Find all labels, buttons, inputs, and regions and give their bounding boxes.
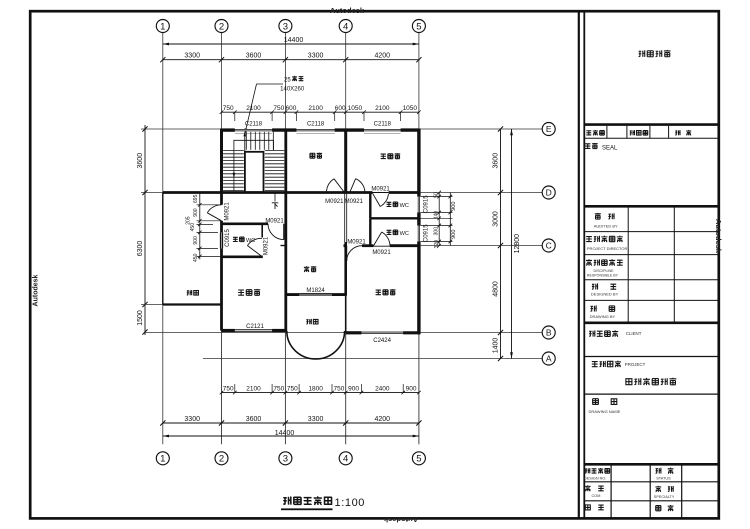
wall grid3 full bbox=[284, 129, 287, 332]
svg-text:1400: 1400 bbox=[492, 338, 499, 354]
svg-text:B: B bbox=[546, 328, 552, 338]
svg-text:750: 750 bbox=[223, 105, 234, 112]
svg-text:1800: 1800 bbox=[308, 385, 323, 392]
window C2118 no.1 bbox=[235, 130, 272, 134]
svg-text:3300: 3300 bbox=[184, 53, 200, 60]
room label 主卧室 right bbox=[376, 289, 396, 295]
svg-text:4: 4 bbox=[343, 21, 348, 32]
svg-text:600: 600 bbox=[285, 105, 296, 112]
wall B right with C2424 bbox=[346, 332, 421, 335]
svg-text:A: A bbox=[546, 354, 552, 364]
svg-text:Autodesk: Autodesk bbox=[714, 219, 723, 254]
工程负责人 PROJECT DIRECTOR bbox=[586, 236, 627, 251]
svg-text:RESPONSIBLE BY: RESPONSIBLE BY bbox=[587, 274, 619, 278]
svg-text:M0921: M0921 bbox=[371, 186, 390, 192]
svg-text:750: 750 bbox=[223, 385, 234, 392]
window C0915 right upper bbox=[418, 197, 420, 213]
svg-text:CLIENT: CLIENT bbox=[626, 331, 642, 336]
wall C (bay4-5) with door gaps bbox=[344, 244, 419, 247]
svg-text:DRAWING BY: DRAWING BY bbox=[590, 314, 616, 319]
wall grid4 upper bbox=[344, 129, 347, 194]
grid line 3 vertical bbox=[284, 33, 286, 445]
door pair arcs above wall D (bedroom doors) bbox=[326, 179, 365, 192]
right total dim 12800 bbox=[510, 129, 521, 359]
svg-text:900: 900 bbox=[406, 385, 417, 392]
svg-text:3300: 3300 bbox=[308, 53, 324, 60]
svg-text:2100: 2100 bbox=[375, 105, 390, 112]
top bay dims 3300 3600 3300 4200 bbox=[160, 53, 421, 63]
svg-text:2: 2 bbox=[219, 454, 224, 465]
room label 阳台 left bbox=[187, 290, 199, 295]
grid line B horizontal bbox=[145, 332, 542, 334]
grid line 2 vertical bbox=[221, 33, 223, 445]
工程名称 PROJECT / 四川南江别墅 bbox=[584, 361, 719, 394]
svg-text:1: 1 bbox=[160, 21, 165, 32]
right small dim lines bbox=[421, 191, 457, 249]
door M0921 master bedroom right (swing down-right) bbox=[347, 246, 362, 261]
window C2118 no.3 bbox=[364, 130, 401, 134]
wall grid2 lower with door + C0915 window bbox=[220, 193, 223, 331]
bottom grid circles 1-5 bbox=[156, 452, 425, 465]
svg-text:750: 750 bbox=[333, 385, 344, 392]
door M0921 to left balcony (swing left) bbox=[207, 205, 221, 221]
svg-text:2100: 2100 bbox=[246, 105, 261, 112]
图名 DRAWING NAME bbox=[589, 399, 621, 414]
WC-left bottom wall bbox=[222, 255, 263, 258]
drawing-area / title-block divider bbox=[578, 10, 580, 519]
grid line E horizontal bbox=[141, 128, 542, 130]
svg-text:D: D bbox=[546, 188, 552, 198]
svg-text:M0921: M0921 bbox=[224, 202, 230, 221]
window C0915 right lower bbox=[418, 226, 420, 242]
svg-text:2100: 2100 bbox=[246, 385, 261, 392]
window C0915 left bbox=[221, 232, 223, 248]
svg-text:2: 2 bbox=[219, 21, 224, 32]
title block: seal area 盖章 SEAL bbox=[585, 143, 618, 152]
施工单位 CLIENT section bbox=[584, 330, 719, 356]
left dim line 3600/6300/1500 bbox=[137, 125, 163, 335]
svg-text:C0915: C0915 bbox=[424, 195, 430, 213]
svg-text:3600: 3600 bbox=[246, 416, 262, 423]
door M0921 upper WC (swing down) bbox=[371, 193, 389, 207]
C2118 window labels top bbox=[245, 121, 392, 127]
svg-text:140X260: 140X260 bbox=[280, 87, 305, 93]
svg-text:Autodesk: Autodesk bbox=[330, 6, 365, 15]
room label 主卧WC left bbox=[233, 237, 255, 244]
svg-text:450: 450 bbox=[190, 223, 196, 232]
exterior wall E (top) with C2118 windows bbox=[222, 129, 419, 131]
exterior wall grid5 (right) with two C0915 windows bbox=[418, 129, 420, 335]
svg-text:DESIGNED BY: DESIGNED BY bbox=[591, 292, 619, 297]
svg-text:M1824: M1824 bbox=[306, 288, 325, 294]
svg-text:5: 5 bbox=[416, 21, 421, 32]
svg-text:3: 3 bbox=[283, 454, 288, 465]
svg-text:750: 750 bbox=[273, 105, 284, 112]
svg-text:Autodesk: Autodesk bbox=[383, 515, 418, 524]
staircase right flight treads bbox=[265, 151, 285, 191]
svg-text:750: 750 bbox=[273, 385, 284, 392]
svg-text:2100: 2100 bbox=[308, 105, 323, 112]
svg-text:50: 50 bbox=[433, 192, 439, 198]
stair down arrow bbox=[233, 173, 236, 179]
stair down tick + 下 label bbox=[272, 194, 278, 210]
svg-text:C2118: C2118 bbox=[307, 121, 325, 127]
window C2118 no.2 bbox=[296, 130, 334, 134]
room label 主卧WC lower bbox=[387, 230, 409, 237]
svg-text:Autodesk: Autodesk bbox=[33, 274, 40, 306]
制图 DRAWING BY bbox=[590, 305, 616, 319]
staircase top flight treads bbox=[246, 132, 273, 150]
svg-text:3300: 3300 bbox=[308, 416, 324, 423]
svg-text:SPECIALTY: SPECIALTY bbox=[654, 495, 675, 499]
bottom table bbox=[584, 464, 719, 519]
door M0921 into WC lobby (hinge at grid3) bbox=[268, 224, 284, 240]
svg-text:DRAWING NAME: DRAWING NAME bbox=[589, 409, 621, 414]
grid line 1 vertical bbox=[162, 33, 164, 445]
svg-text:14400: 14400 bbox=[284, 37, 304, 44]
svg-text:M0921: M0921 bbox=[372, 250, 391, 256]
svg-text:DISCIPLINE: DISCIPLINE bbox=[594, 269, 615, 273]
svg-text:M0921: M0921 bbox=[325, 199, 344, 205]
svg-text:DESIGN NO.: DESIGN NO. bbox=[584, 476, 606, 480]
svg-text:COM: COM bbox=[592, 494, 601, 498]
svg-text:14400: 14400 bbox=[275, 430, 295, 437]
door M0921 lower WC (swing up-right) bbox=[373, 232, 390, 246]
svg-text:3000: 3000 bbox=[492, 211, 499, 227]
top total dim 14400 bbox=[163, 37, 419, 45]
svg-text:M0921: M0921 bbox=[345, 199, 364, 205]
设计编号 DESIGN NO. / 阶段 STATUS bbox=[584, 468, 673, 481]
WC-left right wall bbox=[261, 224, 263, 238]
room label 主卧WC upper bbox=[387, 202, 409, 209]
interior wall D bbox=[163, 191, 419, 194]
top grid circles 1-5 bbox=[156, 20, 425, 33]
svg-text:6300: 6300 bbox=[137, 241, 144, 257]
日期 / 图号 bbox=[585, 505, 673, 511]
svg-text:WC: WC bbox=[400, 203, 409, 209]
svg-text:900: 900 bbox=[451, 202, 457, 211]
svg-text:C0915: C0915 bbox=[424, 224, 430, 242]
left bedroom bottom wall with C2121 bbox=[222, 329, 288, 332]
title block: issue row 正式图/条件图/版次 bbox=[584, 126, 719, 138]
svg-text:12800: 12800 bbox=[514, 234, 521, 254]
svg-text:2400: 2400 bbox=[375, 385, 390, 392]
right outer dim line 3600/3000/4800/1400 bbox=[492, 126, 503, 361]
svg-text:STATUS: STATUS bbox=[656, 476, 671, 480]
WC divider wall bbox=[370, 217, 419, 219]
svg-text:1050: 1050 bbox=[348, 105, 363, 112]
svg-text:600: 600 bbox=[335, 105, 346, 112]
张数 COM / 专业 SPECIALTY bbox=[585, 485, 675, 499]
svg-text:900: 900 bbox=[348, 385, 359, 392]
title block: project title box 轻钢别墅 bbox=[584, 50, 719, 125]
svg-text:M0921: M0921 bbox=[265, 218, 284, 224]
svg-text:C2118: C2118 bbox=[374, 121, 392, 127]
svg-text:M0921: M0921 bbox=[347, 240, 366, 246]
room label 主卧室 (bay4-5 up) bbox=[381, 153, 401, 159]
svg-text:4200: 4200 bbox=[375, 53, 391, 60]
svg-text:WC: WC bbox=[400, 231, 409, 237]
svg-text:1: 1 bbox=[160, 454, 165, 465]
room label 主卧室 left bbox=[238, 289, 260, 295]
svg-text:3600: 3600 bbox=[492, 153, 499, 169]
lower WC left wall bbox=[369, 218, 371, 245]
wall C stub at grid3 bbox=[281, 245, 288, 247]
svg-text:25: 25 bbox=[284, 78, 291, 84]
svg-text:695: 695 bbox=[193, 194, 199, 203]
专业负责人 DISCIPLINE RESPONSIBLE BY bbox=[586, 259, 623, 277]
svg-text:140: 140 bbox=[433, 211, 439, 220]
stair note 25梯步 140X260 with leader bbox=[245, 76, 305, 134]
WC-left top wall bbox=[222, 223, 269, 226]
wall grid2 upper (stair left) bbox=[220, 129, 223, 194]
svg-text:C2424: C2424 bbox=[373, 338, 391, 344]
left balcony bottom wall bbox=[163, 303, 222, 305]
left small dim line bbox=[186, 193, 221, 262]
center balcony arc bbox=[287, 331, 345, 359]
grid line C horizontal bbox=[419, 245, 542, 247]
title block: personnel table bbox=[584, 206, 719, 322]
svg-text:3: 3 bbox=[283, 21, 288, 32]
room label 书房 bbox=[304, 266, 316, 272]
room label 卧室 (bay3-4 up) bbox=[310, 153, 322, 159]
svg-text:3300: 3300 bbox=[184, 416, 200, 423]
svg-text:900: 900 bbox=[193, 236, 199, 245]
svg-text:3600: 3600 bbox=[246, 53, 262, 60]
审核 AUDITED BY bbox=[594, 213, 618, 229]
door M0921 WC-left (arc up-left) bbox=[247, 238, 262, 256]
wall grid4 double thin mid bbox=[345, 194, 347, 242]
svg-text:900: 900 bbox=[193, 208, 199, 217]
bottom window dim row bbox=[220, 384, 421, 394]
grid line A horizontal bbox=[203, 358, 542, 360]
balcony right wall grid4 bbox=[345, 296, 347, 332]
svg-text:E: E bbox=[546, 124, 552, 134]
title block left border bbox=[583, 10, 585, 519]
svg-text:C2121: C2121 bbox=[246, 324, 264, 330]
svg-text:4800: 4800 bbox=[492, 281, 499, 297]
balcony left wall grid1 bbox=[162, 193, 164, 305]
room label 阳台 center bbox=[306, 319, 318, 324]
svg-text:3600: 3600 bbox=[137, 153, 144, 169]
staircase left flight treads bbox=[223, 151, 244, 191]
svg-text:1050: 1050 bbox=[403, 105, 418, 112]
svg-text:C0915: C0915 bbox=[225, 229, 231, 247]
bottom bay dims bbox=[160, 416, 421, 426]
svg-text:4200: 4200 bbox=[375, 416, 391, 423]
staircase handrail bbox=[234, 140, 274, 191]
bottom total dim 14400 bbox=[163, 430, 419, 437]
top window dim row bbox=[220, 105, 421, 121]
svg-text:750: 750 bbox=[287, 385, 298, 392]
stair up arrow bbox=[244, 131, 247, 179]
svg-text:C: C bbox=[546, 241, 552, 251]
svg-text:900: 900 bbox=[451, 230, 457, 239]
设计 DESIGNED BY bbox=[591, 283, 619, 296]
svg-text:300: 300 bbox=[433, 227, 439, 236]
svg-text:1:100: 1:100 bbox=[335, 497, 366, 509]
svg-text:4: 4 bbox=[343, 454, 348, 465]
svg-text:320: 320 bbox=[434, 240, 440, 249]
svg-text:WC: WC bbox=[246, 238, 255, 244]
svg-text:AUDITED BY: AUDITED BY bbox=[594, 224, 618, 229]
svg-text:PROJECT: PROJECT bbox=[625, 362, 646, 367]
grid line D horizontal bbox=[141, 192, 542, 194]
wall grid4 lower bbox=[344, 242, 347, 296]
right grid circles E D C B A bbox=[542, 123, 555, 366]
drawing title 二层平面图 1:100 bbox=[281, 496, 365, 510]
upper WC left wall bbox=[369, 193, 371, 219]
svg-text:5: 5 bbox=[416, 454, 421, 465]
grid line 5 vertical bbox=[418, 33, 420, 445]
grid line 4 vertical bbox=[345, 33, 347, 445]
M1824 wall (bay3-4) bbox=[285, 293, 345, 296]
svg-text:1500: 1500 bbox=[137, 310, 144, 326]
svg-text:M0921: M0921 bbox=[263, 236, 269, 255]
staircase central core bbox=[245, 152, 264, 192]
svg-text:450: 450 bbox=[193, 253, 199, 262]
svg-text:PROJECT DIRECTOR: PROJECT DIRECTOR bbox=[587, 246, 628, 251]
svg-text:SEAL: SEAL bbox=[602, 145, 618, 151]
